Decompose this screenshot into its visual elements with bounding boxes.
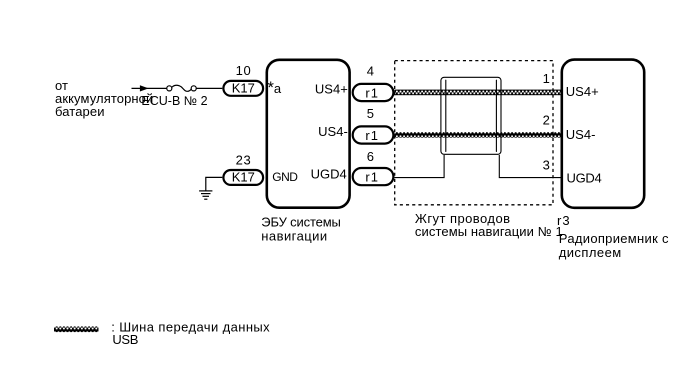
label: radio name [559,231,669,260]
svg-text:US4-: US4- [566,127,596,142]
svg-text:6: 6 [367,149,374,164]
wire: US4+ data bus [395,90,562,96]
svg-text:US4-: US4- [318,124,348,139]
connector r1 pin 6 [353,168,394,185]
fuse ECU-B No.2 [167,85,197,91]
svg-text:дисплеем: дисплеем [559,245,622,260]
svg-text:K17: K17 [232,80,255,95]
label: ECU box name [261,215,340,244]
svg-text:r3: r3 [557,213,571,228]
wire: UGD4 drain left segment [395,155,445,178]
svg-text:US4+: US4+ [315,82,348,97]
node: from-battery label [55,78,153,119]
svg-text:батареи: батареи [55,104,105,119]
wire: fuse to K17 [196,87,222,89]
harness dashed box [395,61,553,205]
connector r1 pin 4 [353,84,394,101]
svg-text:r1: r1 [365,85,379,100]
svg-text:системы навигации № 1: системы навигации № 1 [415,224,563,239]
svg-text:*a: *a [268,79,282,97]
svg-text:10: 10 [236,63,252,78]
svg-text:23: 23 [236,152,252,167]
svg-text:UGD4: UGD4 [567,170,602,185]
svg-text:K17: K17 [232,170,255,185]
legend: USB data bus text [111,319,270,347]
svg-text:4: 4 [367,63,374,78]
svg-text:USB: USB [112,332,138,347]
svg-text:r1: r1 [365,170,379,185]
ground [199,191,212,199]
shield around USB pair [441,77,501,154]
radio U2: receiver with display box [562,60,644,208]
label: harness name [415,211,563,239]
svg-text:ЭБУ системы: ЭБУ системы [261,215,340,230]
wire: UGD4 drain right segment [499,155,560,178]
svg-text:US4+: US4+ [566,84,599,99]
connector K17 pin 10 [223,80,263,95]
svg-text:2: 2 [543,113,550,128]
legend: USB data bus swatch [54,326,99,332]
ECU U1: navigation ECU box [267,60,350,208]
connector r1 pin 5 [353,126,394,143]
svg-text:1: 1 [543,71,550,86]
svg-text:GND: GND [272,170,298,184]
svg-text:UGD4: UGD4 [311,167,347,182]
wire: K17 pin23 to ground [206,177,223,191]
svg-text:навигации: навигации [261,229,327,244]
wire: battery feed with arrow [132,85,168,91]
svg-text:ECU-B № 2: ECU-B № 2 [141,94,207,108]
wire: US4- data bus [395,132,562,138]
svg-text:3: 3 [543,157,550,172]
connector K17 pin 23 [223,170,263,185]
svg-text:r1: r1 [365,128,379,143]
svg-text:5: 5 [367,106,374,121]
